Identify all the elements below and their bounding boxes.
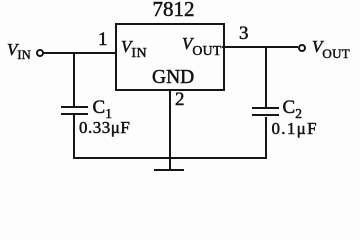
wire C1 branch lower (73, 115, 75, 158)
wire bottom rail (73, 157, 267, 159)
label VIN input terminal (7, 42, 31, 58)
wire C2 branch lower (265, 117, 267, 159)
wire C1 branch upper (73, 52, 75, 106)
pin number 3 (239, 26, 249, 41)
label C1 value 0.33uF (79, 119, 130, 136)
wire C2 branch upper (265, 46, 267, 107)
capacitor C2 (252, 107, 279, 116)
pin label VIN inside U1 (121, 38, 147, 56)
wire input VIN to pin 1 (43, 52, 115, 54)
pin number 1 (98, 32, 108, 47)
pin label VOUT inside U1 (182, 35, 222, 53)
node VIN input terminal circle (36, 49, 44, 57)
wire GND pin 2 vertical (169, 90, 171, 170)
label C2 value 0.1uF (272, 120, 318, 137)
capacitor C1 (61, 106, 88, 115)
label VOUT output terminal (312, 39, 350, 55)
pin number 2 (175, 92, 185, 107)
label C2 (283, 99, 303, 116)
label U1 value 7812 (153, 0, 191, 18)
label C1 (93, 99, 113, 116)
regulator IC U1 7812 box (115, 23, 225, 92)
pin label GND inside U1 (152, 68, 194, 87)
wire output pin 3 to VOUT (222, 46, 298, 48)
ground bar (154, 169, 184, 172)
node VOUT output terminal circle (298, 44, 306, 52)
